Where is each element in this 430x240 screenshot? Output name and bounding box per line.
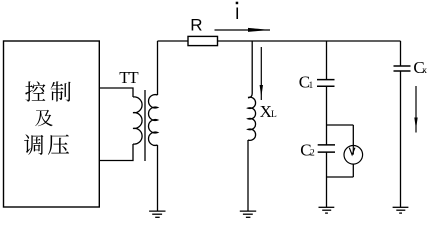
wire primary bottom from transformer to box	[99, 144, 133, 161]
ground at C2	[319, 207, 335, 213]
svg-text:1: 1	[309, 81, 314, 91]
ground at Cx	[393, 207, 409, 213]
dot of I label	[236, 2, 239, 4]
svg-text:R: R	[190, 15, 202, 34]
wire meter branch top	[352, 125, 354, 146]
transformer T1 secondary winding	[149, 95, 158, 146]
wire C2 bottom lead	[326, 152, 328, 177]
voltmeter V circle	[344, 146, 363, 165]
wire XL branch riser	[248, 41, 252, 98]
wire C2 top lead	[326, 125, 328, 145]
current arrow I horizontal	[215, 29, 271, 31]
wire parallel top	[327, 124, 354, 126]
hanzi 压	[48, 134, 69, 155]
capacitor C2	[318, 145, 335, 152]
hanzi 控	[25, 81, 45, 101]
transformer T1 primary winding	[133, 97, 142, 144]
svg-text:2: 2	[310, 149, 315, 159]
wire meter branch bottom	[352, 164, 354, 177]
ground at transformer	[149, 211, 165, 217]
wire primary top from box to transformer	[99, 88, 133, 97]
hanzi 调	[24, 134, 43, 155]
wire C1 branch riser	[326, 41, 328, 79]
wire C1 to parallel section	[326, 87, 328, 125]
control box 控制及调压	[4, 41, 100, 207]
arrowhead of current I	[248, 28, 266, 32]
svg-text:TT: TT	[119, 68, 139, 87]
voltmeter V letter	[349, 148, 355, 155]
hanzi 及	[35, 110, 53, 126]
wire parallel bottom	[327, 176, 354, 178]
wire C2 to ground	[326, 177, 328, 207]
svg-text:x: x	[422, 66, 427, 76]
resistor R body	[188, 36, 218, 45]
current arrow Cx vertical	[415, 86, 417, 133]
wire Cx branch riser	[400, 41, 402, 66]
wire Cx to ground	[400, 71, 402, 207]
capacitor Cx	[394, 66, 411, 71]
hanzi 制	[51, 81, 71, 101]
svg-text:L: L	[271, 110, 277, 120]
capacitor C1	[317, 80, 335, 87]
wire XL bottom to ground	[247, 140, 249, 211]
arrowhead of XL current arrow	[260, 85, 263, 97]
inductor XL winding	[248, 97, 256, 140]
ground at XL	[240, 211, 256, 217]
transformer core	[144, 90, 146, 161]
wire secondary top riser	[157, 41, 159, 95]
wire top bus	[158, 40, 401, 42]
wire secondary bottom to ground	[157, 145, 159, 211]
current arrow XL vertical	[260, 47, 262, 100]
arrowhead of Cx current arrow	[414, 118, 417, 130]
svg-text:I: I	[235, 4, 240, 23]
voltmeter V pointer wire	[352, 146, 354, 155]
